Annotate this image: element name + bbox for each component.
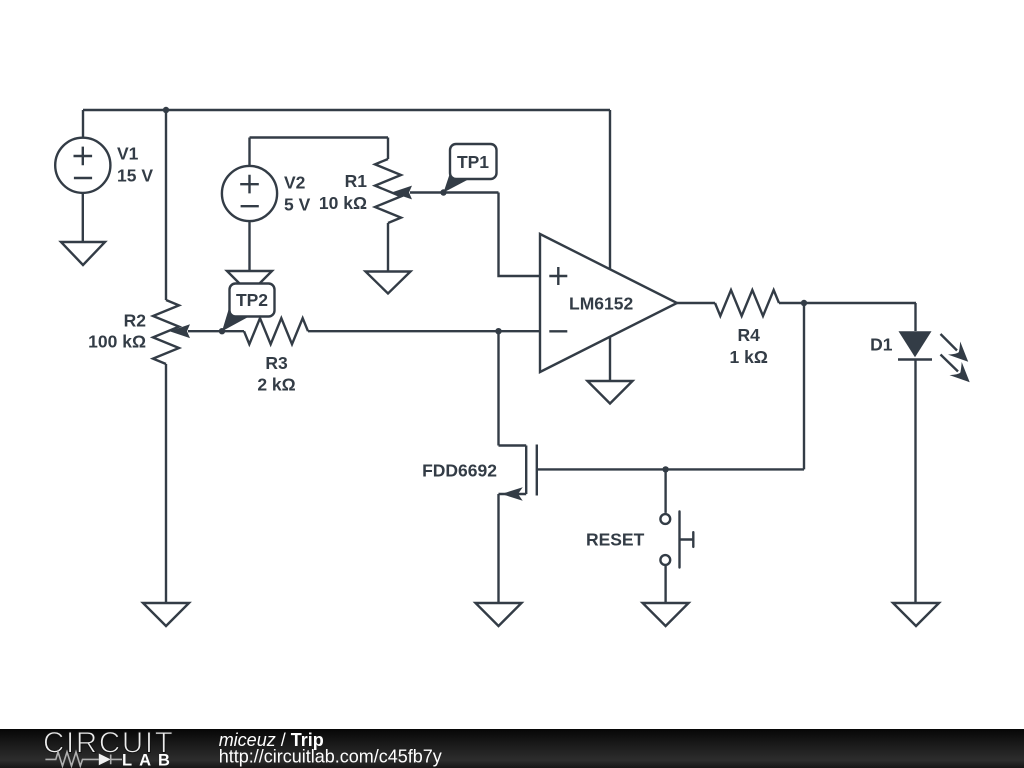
ground (D1) [893, 603, 939, 626]
wire V2 to R1 top [250, 136, 389, 138]
svg-text:http://circuitlab.com/c45fb7y: http://circuitlab.com/c45fb7y [219, 747, 442, 767]
svg-text:D1: D1 [870, 335, 893, 355]
junction node gate / reset switch [662, 466, 668, 472]
wire op-amp output [677, 302, 715, 304]
node junction R2 wiper / R3 / TP2 [219, 328, 225, 334]
LED D1 [898, 303, 970, 603]
transistor Q1 FDD6692 (NMOS) [499, 445, 805, 501]
svg-text:100 kΩ: 100 kΩ [88, 332, 146, 352]
ground (V2) [227, 271, 272, 294]
R3 label [257, 353, 295, 395]
svg-text:TP1: TP1 [457, 152, 489, 172]
test point TP2 [222, 284, 275, 332]
wire op-amp V+ power from top rail [609, 110, 611, 269]
junction node TP1 / wiper [440, 189, 446, 195]
svg-text:LM6152: LM6152 [569, 294, 633, 314]
svg-text:R4: R4 [738, 325, 761, 345]
wire TP1 node to op-amp noninverting input [499, 193, 541, 277]
junction node top rail / V1 / R2 [163, 107, 169, 113]
ground (V1) [61, 242, 105, 265]
svg-text:15 V: 15 V [117, 166, 153, 186]
ground (R2) [143, 603, 189, 626]
wire R4 node down to gate net [803, 303, 805, 469]
logo doodle resistor-diode [45, 752, 122, 766]
wire op-amp V- power to ground [609, 337, 611, 381]
ground (reset) [643, 603, 689, 626]
R2 label [88, 311, 146, 352]
svg-text:R2: R2 [124, 311, 147, 331]
ground (Q1 source) [476, 603, 522, 626]
V1 label [117, 144, 153, 186]
voltage source V2 [222, 138, 277, 272]
potentiometer R2 [153, 300, 222, 364]
voltage source V1 [55, 110, 110, 242]
svg-text:FDD6692: FDD6692 [422, 461, 497, 481]
svg-text:TP2: TP2 [236, 290, 268, 310]
svg-text:V2: V2 [284, 173, 306, 193]
footer bar [0, 729, 1024, 768]
wire feedback node down to Q1 drain [497, 331, 499, 445]
R4 label [730, 325, 768, 367]
resistor R3 [222, 318, 499, 344]
R1 label [319, 171, 367, 213]
ground (R1) [366, 272, 411, 294]
wire R4 to D1 [779, 302, 916, 304]
svg-text:R1: R1 [345, 171, 368, 191]
push button RESET [660, 469, 693, 603]
V2 label [284, 173, 311, 215]
op-amp U1 LM6152 [540, 234, 677, 372]
test point TP1 [444, 144, 497, 193]
svg-text:V1: V1 [117, 144, 139, 164]
wire top rail [83, 109, 610, 111]
svg-text:R3: R3 [265, 353, 288, 373]
svg-text:1 kΩ: 1 kΩ [730, 347, 768, 367]
ground (op-amp) [588, 381, 633, 404]
junction node output / gate feedback [801, 300, 807, 306]
potentiometer R1 [375, 138, 499, 272]
svg-text:2 kΩ: 2 kΩ [257, 375, 295, 395]
svg-text:LAB: LAB [122, 751, 177, 768]
wire inverting input [499, 330, 541, 332]
wire top rail down to R2 [165, 110, 167, 300]
wire R2 bottom to ground [165, 364, 167, 603]
junction node inverting input / feedback [495, 328, 501, 334]
wire Q1 source to ground [497, 494, 499, 603]
svg-text:RESET: RESET [586, 529, 645, 549]
svg-text:10 kΩ: 10 kΩ [319, 193, 367, 213]
resistor R4 [715, 290, 779, 316]
svg-text:5 V: 5 V [284, 195, 311, 215]
